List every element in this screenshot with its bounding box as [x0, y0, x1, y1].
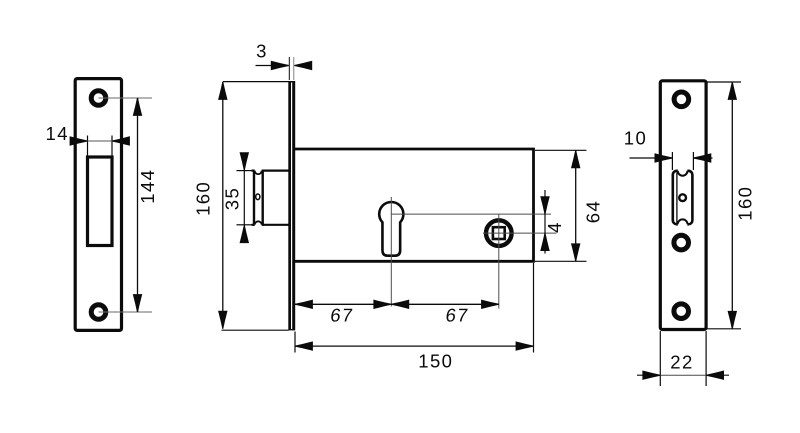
latch notch bottom (white gap)	[255, 221, 262, 228]
latch front inner edge line	[676, 173, 678, 224]
latch notch top (white gap)	[255, 167, 262, 174]
dim 35 dimension line	[243, 154, 245, 242]
strike plate latch slot	[88, 157, 113, 246]
dim 22 right extension	[705, 331, 707, 386]
latch pin hole	[256, 194, 260, 200]
dim 144 extension line top (through hole centre)	[99, 97, 153, 99]
dim 10 leader right	[693, 157, 712, 159]
dim 160 (middle) top extension	[223, 81, 289, 83]
faceplate outline	[660, 81, 706, 330]
dim 22 leader left	[637, 374, 660, 376]
dim 4 arrow down (above)	[541, 197, 549, 214]
faceplate inner slit	[291, 83, 293, 330]
dim 67 arrow far-left	[295, 300, 312, 308]
dim 64 arrow up	[572, 150, 580, 167]
euro cylinder profile	[379, 202, 403, 256]
faceplate middle screw hole	[674, 235, 689, 250]
dim 10 arrow right	[693, 154, 710, 162]
dim 67+67 dimension line	[295, 303, 499, 305]
dim 150 arrow right	[516, 342, 533, 350]
dim 4 dimension line	[544, 190, 546, 254]
latch notch top arc	[255, 171, 262, 175]
dim 35 bottom extension	[237, 224, 253, 226]
latch follower left edge	[253, 170, 255, 226]
latch front outline	[673, 171, 693, 225]
latch notch bottom arc	[255, 221, 262, 225]
dim 14 arrow right	[112, 137, 129, 145]
dim 22 arrow left	[643, 371, 660, 379]
dim 150 dimension line	[295, 345, 534, 347]
latch follower top line	[252, 170, 289, 172]
dim 160 (middle) bottom extension	[222, 329, 289, 331]
svg-text:22: 22	[670, 351, 693, 372]
latch front pin hole	[679, 194, 686, 201]
dim 22 line between tips	[660, 374, 706, 376]
svg-text:144: 144	[137, 169, 158, 204]
latch front notch top (white gap)	[678, 166, 688, 176]
dim 3 extension line b	[293, 57, 295, 80]
svg-text:64: 64	[583, 200, 604, 223]
dim 35 arrow down (above, pointing to top line)	[240, 153, 248, 170]
dim 64 arrow down	[572, 244, 580, 261]
dim 3 arrow right	[294, 61, 311, 69]
dim 160 (middle) arrow up	[219, 82, 227, 99]
dim 22 arrow right	[706, 371, 723, 379]
dim 160 (right) bottom extension	[707, 328, 741, 330]
euro cylinder vertical centreline	[390, 197, 392, 307]
dim 150 left extension	[294, 332, 296, 353]
dim 10 extension right	[692, 152, 694, 170]
dim 14 arrow left	[70, 137, 87, 145]
spindle square	[493, 227, 505, 239]
dim 35 arrow up (below, pointing to bottom line)	[240, 225, 248, 242]
dim 67 arrows middle pair	[374, 300, 391, 308]
svg-text:35: 35	[222, 187, 243, 210]
faceplate (side, 3mm)	[288, 81, 295, 330]
dim 10 extension left	[671, 152, 673, 170]
dim 144 extension line bottom (through hole centre)	[99, 311, 153, 313]
faceplate top screw hole	[674, 92, 689, 107]
latch front notch bottom (white gap)	[678, 219, 688, 229]
spindle horizontal centreline	[483, 232, 557, 234]
dim 3 extension line a	[288, 57, 290, 80]
dim 160 (right) arrow up	[728, 82, 736, 99]
svg-text:67: 67	[444, 305, 470, 326]
dim 144 arrow up	[133, 98, 141, 115]
dim 144 dimension line	[137, 98, 139, 312]
dim 150 arrow left	[295, 342, 312, 350]
dim 160 (right) dimension line	[731, 82, 733, 329]
dim 10 leader left	[630, 157, 673, 159]
strike plate outline	[75, 79, 121, 331]
dim 14 extension line right	[111, 136, 113, 158]
dim 160 (right) arrow down	[728, 311, 736, 328]
svg-text:3: 3	[256, 41, 268, 62]
dim 4 arrow up (below)	[541, 233, 549, 250]
dim 35 top extension	[237, 170, 253, 172]
spindle vertical centreline	[498, 214, 500, 308]
dim 3 leader left	[256, 65, 289, 67]
dim 160 (middle) dimension line	[222, 82, 224, 329]
svg-text:160: 160	[193, 181, 214, 216]
euro cylinder horizontal centreline	[391, 213, 551, 215]
dim 64 dimension line	[575, 150, 577, 261]
svg-text:4: 4	[544, 221, 565, 233]
dim 14 extension line left	[87, 136, 89, 158]
latch front notch bottom arc	[678, 219, 688, 224]
dim 22 leader right	[706, 374, 729, 376]
dim 10 arrow left	[655, 154, 672, 162]
dim 160 (middle) arrow down	[219, 311, 227, 328]
dim 160 (right) top extension	[707, 81, 741, 83]
spindle hole ring	[486, 220, 512, 246]
strike plate top screw hole	[91, 91, 106, 106]
lock body case outline	[295, 149, 534, 261]
dim 150 right extension	[533, 263, 535, 353]
latch follower bottom line	[252, 224, 289, 226]
latch follower inner edge	[262, 170, 264, 226]
svg-text:160: 160	[735, 186, 756, 221]
svg-text:10: 10	[624, 128, 647, 149]
dim 64 top extension	[535, 149, 587, 151]
dim 67 arrow far-right	[482, 300, 499, 308]
strike plate bottom screw hole	[91, 305, 106, 320]
latch front notch top arc	[678, 171, 688, 176]
svg-text:67: 67	[329, 305, 355, 326]
svg-text:150: 150	[418, 351, 453, 372]
dim 144 arrow down	[133, 295, 141, 312]
dim 14 line between tips	[88, 140, 113, 142]
svg-text:14: 14	[46, 123, 69, 144]
dim 3 arrow left	[271, 61, 288, 69]
faceplate bottom screw hole	[674, 304, 689, 319]
dim 64 bottom extension	[535, 260, 587, 262]
dim 22 left extension	[659, 331, 661, 386]
